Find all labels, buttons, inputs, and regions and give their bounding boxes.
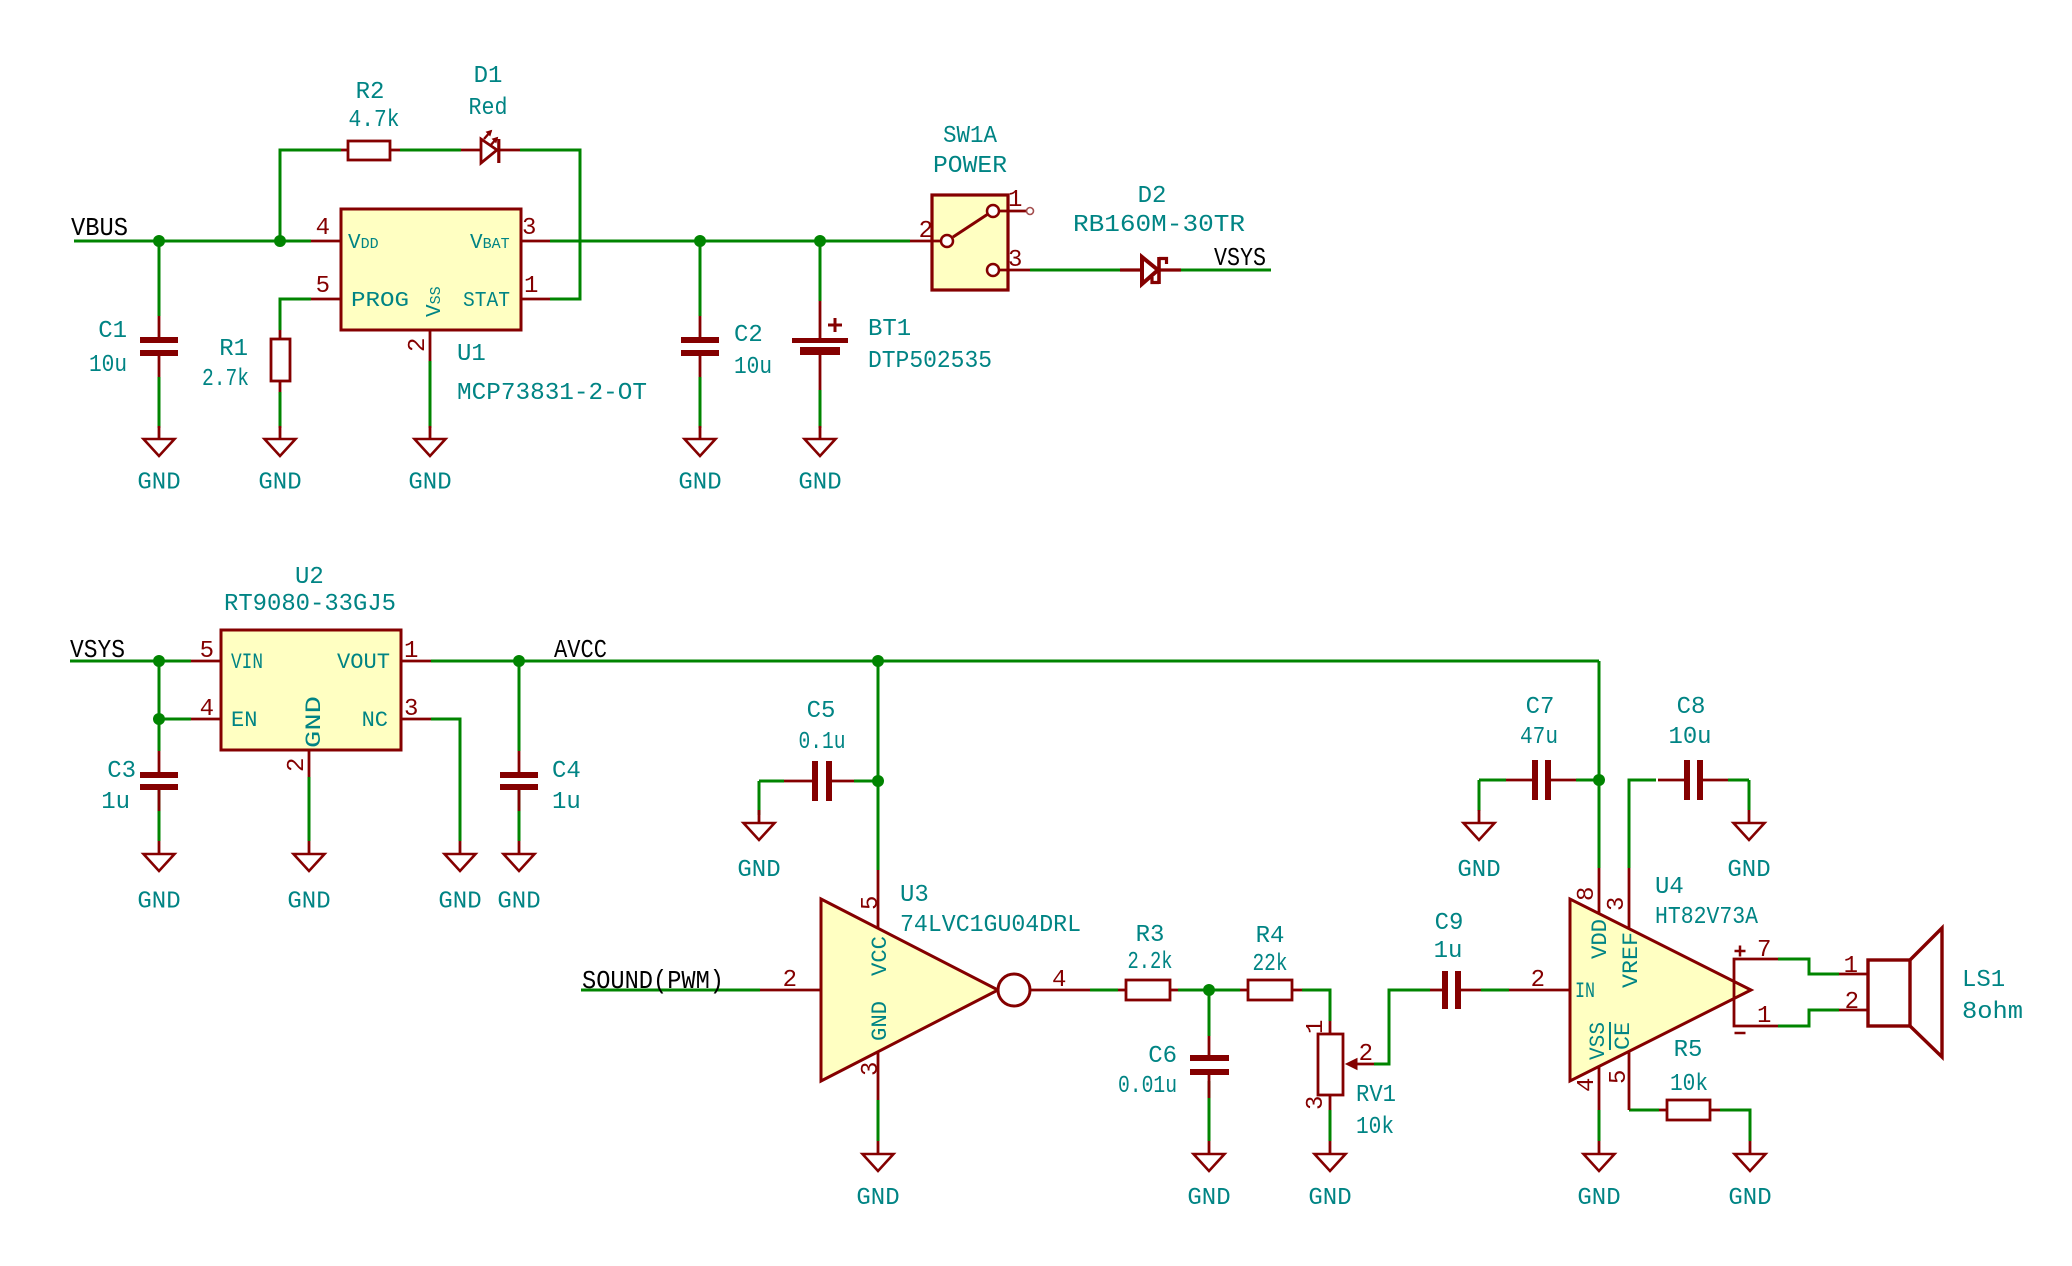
svg-text:5: 5 [858,896,885,910]
svg-text:C3: C3 [107,758,136,785]
battery BT1 DTP502535 [792,301,992,390]
U1 pin 2 VSS stub [405,330,432,361]
wire U2 NC to ground [431,719,460,841]
svg-text:VIN: VIN [231,650,263,675]
wire R2 to D1 [400,149,461,152]
junction VSYS/C3 [153,655,165,667]
svg-text:VREF: VREF [1619,932,1644,988]
svg-text:GND: GND [737,857,780,884]
junction VBUS/R2 [274,235,286,247]
ground GND (U1 VSS) [408,426,451,497]
junction C5/U3 VCC [872,775,884,787]
svg-text:1: 1 [1303,1020,1330,1034]
svg-text:U2: U2 [295,564,324,591]
svg-text:GND: GND [137,889,180,916]
junction AVCC/C4 [513,655,525,667]
svg-text:DTP502535: DTP502535 [868,348,992,375]
svg-text:POWER: POWER [933,153,1007,180]
U3 pin 3 GND [858,1051,885,1100]
wire C5 left ground drop [758,781,761,815]
svg-text:GND: GND [1457,857,1500,884]
U2 pin 5 VIN [191,638,221,665]
SW1A pin 1 (unconnected) [999,187,1034,215]
svg-text:1: 1 [524,273,538,300]
svg-text:2: 2 [919,218,933,245]
svg-text:R4: R4 [1256,923,1285,950]
ground GND (C8) [1727,810,1770,884]
svg-text:U4: U4 [1655,874,1684,901]
svg-text:4: 4 [1052,967,1066,994]
wire AVCC rail [431,660,1599,663]
svg-text:GND: GND [408,470,451,497]
svg-text:C1: C1 [98,318,127,345]
potentiometer RV1 10k [1303,1020,1396,1141]
svg-text:HT82V73A: HT82V73A [1655,904,1759,931]
svg-text:C8: C8 [1677,694,1706,721]
svg-text:8ohm: 8ohm [1962,999,2023,1026]
svg-text:VOUT: VOUT [337,650,390,675]
wire C7 right to junction [1576,779,1599,782]
wire R4 to RV1 pin1 [1302,990,1330,1021]
svg-text:GND: GND [137,470,180,497]
svg-text:C9: C9 [1435,910,1464,937]
svg-text:VSYS: VSYS [70,635,125,665]
svg-text:CE: CE [1611,1022,1636,1050]
svg-text:10u: 10u [734,354,772,381]
U3 pin 4 output [1030,967,1090,994]
wire C4 top [518,661,521,751]
wire D2 to VSYS [1181,269,1271,272]
svg-text:10u: 10u [1669,724,1712,751]
svg-text:2: 2 [783,967,797,994]
wire U2 GND pin to ground [308,777,311,841]
svg-text:C7: C7 [1526,694,1555,721]
svg-text:GND: GND [1577,1185,1620,1212]
wire C5 right to junction [854,780,878,783]
wire C6 top [1208,990,1211,1036]
wire SOUND(PWM) to U3 input [581,989,760,992]
capacitor C6 0.01u [1118,1036,1229,1100]
U2 pin 3 NC [401,696,431,723]
LED D1 Red [461,63,520,163]
svg-text:10u: 10u [89,352,127,379]
svg-text:GND: GND [1728,1185,1771,1212]
wire AVCC drop to C5/U3 [877,661,880,870]
wire C1 top [158,241,161,316]
wire D1 to STAT drop [520,150,580,299]
diode D2 RB160M-30TR (Schottky) [1073,183,1245,284]
U1 pin 4 VDD [311,215,341,242]
wire U1 VSS to ground [429,361,432,428]
svg-text:3: 3 [404,696,418,723]
inverter U3 74LVC1GU04DRL body [821,899,1030,1081]
ground GND (C5) [737,810,780,884]
speaker LS1 8ohm [1839,928,2023,1057]
svg-text:GND: GND [798,470,841,497]
wire RV1 pin3 to ground [1329,1110,1332,1141]
op-amp U1 charger MCP73831-2-OT body [341,209,521,330]
svg-text:MCP73831-2-OT: MCP73831-2-OT [457,380,647,407]
regulator U2 RT9080-33GJ5 body [221,630,401,750]
svg-text:2: 2 [1531,967,1545,994]
svg-text:EN: EN [231,708,257,733]
capacitor C7 47u [1506,694,1576,800]
svg-text:GND: GND [1308,1185,1351,1212]
U1 pin 5 PROG [311,273,341,300]
capacitor C2 10u [681,316,772,381]
wire C3 top [158,719,161,751]
resistor R4 22k [1240,923,1302,1000]
wire VBUS rail [74,240,311,243]
svg-text:VSYS: VSYS [1214,243,1266,273]
svg-text:4: 4 [200,696,214,723]
svg-text:VBUS: VBUS [71,213,128,243]
svg-text:GND: GND [302,696,327,748]
wire junction to R4 [1209,989,1240,992]
svg-text:GND: GND [497,889,540,916]
svg-text:RB160M-30TR: RB160M-30TR [1073,212,1245,239]
svg-text:2: 2 [1845,989,1859,1016]
svg-text:GND: GND [678,470,721,497]
ground GND (C7) [1457,810,1500,884]
svg-text:10k: 10k [1356,1114,1394,1141]
svg-text:VDD: VDD [348,232,379,255]
svg-text:VBAT: VBAT [470,232,510,255]
wire EN junction to pin [159,718,191,721]
svg-text:PROG: PROG [351,290,409,313]
junction C7/U4 VDD [1593,774,1605,786]
svg-text:GND: GND [287,889,330,916]
junction VBAT/BT1 [814,235,826,247]
junction VBUS/C1 [153,235,165,247]
wire U4 out+ to LS1 pin1 [1778,959,1839,974]
svg-text:2: 2 [1359,1041,1373,1068]
svg-text:1: 1 [1844,953,1858,980]
svg-text:RT9080-33GJ5: RT9080-33GJ5 [224,591,396,618]
svg-text:74LVC1GU04DRL: 74LVC1GU04DRL [900,912,1081,939]
wire C9 to U4 IN [1481,989,1509,992]
svg-text:0.1u: 0.1u [799,729,846,756]
svg-text:1u: 1u [101,789,130,816]
wire VSYS drop to EN row [158,661,161,719]
svg-text:1: 1 [404,638,418,665]
wire C2 bottom [699,377,702,428]
svg-text:3: 3 [1303,1096,1330,1110]
U4 pin 4 VSS [1574,1066,1601,1110]
U4 pin 5 CE [1606,1051,1633,1110]
SW1A pin 2 [910,218,941,245]
svg-text:R5: R5 [1674,1037,1703,1064]
svg-text:GND: GND [868,1001,893,1041]
U3 pin 5 VCC [858,870,885,929]
wire BT1 top [819,241,822,301]
svg-text:IN: IN [1575,979,1595,1004]
svg-text:VSS: VSS [424,286,447,317]
svg-text:1u: 1u [552,789,581,816]
svg-text:3: 3 [1008,247,1022,274]
ground GND (R5) [1728,1141,1771,1212]
U3 pin 2 input [760,967,821,994]
ground GND (U2 pin2) [287,841,330,916]
svg-text:5: 5 [200,638,214,665]
capacitor C4 1u [500,751,581,816]
junction EN/C3 [153,713,165,725]
svg-text:2.2k: 2.2k [1128,949,1173,976]
wire C2 top [699,241,702,316]
capacitor C8 10u [1658,694,1728,800]
svg-text:3: 3 [1604,897,1631,911]
wire C8 right [1728,779,1749,782]
svg-text:BT1: BT1 [868,316,911,343]
svg-text:4.7k: 4.7k [349,107,400,134]
svg-text:47u: 47u [1520,724,1558,751]
junction VBAT/C2 [694,235,706,247]
svg-text:3: 3 [858,1062,885,1076]
wire VBAT rail to switch [550,240,910,243]
svg-text:SW1A: SW1A [943,123,998,150]
wire C6 bottom [1208,1081,1211,1141]
svg-text:2: 2 [405,338,432,352]
svg-text:Red: Red [469,95,508,122]
svg-text:C4: C4 [552,758,581,785]
svg-text:R1: R1 [219,336,248,363]
svg-text:SOUND(PWM): SOUND(PWM) [582,966,724,996]
wire SW1A pin3 to D2 [1030,269,1120,272]
svg-text:2.7k: 2.7k [202,366,249,393]
junction AVCC/C5-U3 [872,655,884,667]
wire C8 left riser to U4 VREF [1629,780,1656,868]
wire C5 left [759,780,784,783]
svg-text:VSS: VSS [1586,1022,1611,1060]
ground GND (U3 pin3) [856,1141,899,1212]
svg-text:GND: GND [856,1185,899,1212]
svg-text:GND: GND [438,889,481,916]
wire U4 pin4 to ground [1598,1110,1601,1141]
ground GND (U2 NC) [438,841,481,916]
wire C7 ground drop [1478,780,1481,811]
wire U3 out to R3 [1090,989,1118,992]
svg-text:D2: D2 [1138,183,1167,210]
svg-text:U1: U1 [457,341,486,368]
ground GND (C6) [1187,1141,1230,1212]
svg-text:22k: 22k [1253,951,1288,978]
ground GND (R1) [258,426,301,497]
resistor R5 10k [1659,1037,1720,1120]
wire C4 bottom [518,790,521,841]
svg-text:5: 5 [1606,1070,1633,1084]
svg-text:U3: U3 [900,882,929,909]
svg-text:STAT: STAT [463,290,510,313]
wire C7 left [1479,779,1506,782]
wire C1 bottom [158,377,161,428]
svg-text:8: 8 [1574,887,1601,901]
wire C3 bottom [158,790,161,841]
svg-text:GND: GND [258,470,301,497]
svg-text:10k: 10k [1670,1071,1708,1098]
U4 pin name CE with overline (rotated) [1610,1022,1636,1050]
junction R3/R4/C6 [1203,984,1215,996]
wire R1 bottom [279,392,282,428]
wire BT1 bottom [819,390,822,428]
resistor R2 [341,79,400,160]
svg-text:VCC: VCC [868,936,893,976]
svg-text:R3: R3 [1136,922,1165,949]
svg-text:NC: NC [362,708,388,733]
capacitor C9 1u [1430,910,1481,1009]
wire U4 out- to LS1 pin2 [1778,1010,1839,1026]
wire C8 ground drop [1748,780,1751,810]
U4 pin 8 VDD [1574,868,1601,914]
ground GND (C1) [137,426,180,497]
capacitor C1 10u [89,316,178,379]
ground GND (U4 pin4) [1577,1141,1620,1212]
svg-text:1: 1 [1757,1003,1771,1030]
svg-text:1u: 1u [1434,938,1463,965]
svg-text:R2: R2 [356,79,385,106]
svg-text:7: 7 [1757,937,1771,964]
svg-text:4: 4 [1574,1078,1601,1092]
wire U4 pin5 to R5 [1629,1109,1659,1112]
wire VSYS to U2 VIN [70,660,191,663]
svg-text:AVCC: AVCC [554,635,607,665]
svg-text:C5: C5 [807,698,836,725]
svg-text:LS1: LS1 [1962,967,2005,994]
U4 pin 2 IN [1509,967,1570,994]
wire AVCC vertical drop to U4 VDD [1598,661,1601,868]
svg-text:RV1: RV1 [1356,1082,1396,1109]
svg-text:5: 5 [316,273,330,300]
U4 output bracket pins 7 and 1 [1734,937,1778,1033]
U1 pin 1 STAT [521,273,550,300]
ground GND (C2) [678,426,721,497]
ground GND (C3) [137,841,180,916]
svg-text:GND: GND [1727,857,1770,884]
SW1A pin 3 [999,247,1030,274]
ground GND (BT1) [798,426,841,497]
svg-text:C2: C2 [734,322,763,349]
wire RV1 wiper to C9 riser [1374,990,1430,1064]
svg-text:0.01u: 0.01u [1118,1073,1177,1100]
wire R2/D1 feedback left riser [280,150,341,241]
svg-text:GND: GND [1187,1185,1230,1212]
wire R5 to ground drop [1720,1110,1750,1141]
svg-text:3: 3 [522,215,536,242]
svg-text:1: 1 [1008,187,1022,214]
U2 pin 1 VOUT [401,638,431,665]
ground GND (C4) [497,841,540,916]
capacitor C5 0.1u [784,698,854,801]
svg-text:4: 4 [316,215,330,242]
amplifier U4 HT82V73A body [1570,899,1751,1081]
U2 pin 4 EN [191,696,221,723]
U2 pin 2 GND stub [284,750,311,777]
svg-text:2: 2 [284,758,311,772]
switch SW1A POWER [932,123,1008,290]
capacitor C3 1u [101,751,178,816]
U4 pin 3 VREF [1604,868,1631,929]
svg-text:C6: C6 [1148,1043,1177,1070]
svg-text:D1: D1 [474,63,503,90]
resistor R1 2.7k [202,330,290,393]
wire R3 to junction [1178,989,1209,992]
resistor R3 2.2k [1118,922,1178,1000]
wire PROG to R1 [280,299,311,330]
svg-text:VDD: VDD [1588,919,1613,959]
wire U3 pin3 to ground [877,1100,880,1141]
ground GND (RV1) [1308,1141,1351,1212]
U1 pin 3 VBAT [521,215,550,242]
